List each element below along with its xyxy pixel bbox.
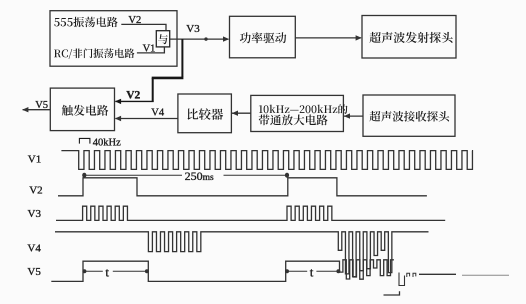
wire V5 output [23, 109, 51, 111]
t1 terminator dot right [145, 269, 149, 273]
waveform V4 received signal with echo burst [55, 232, 429, 279]
svg-text:40kHz: 40kHz [93, 137, 121, 148]
svg-text:V5: V5 [27, 266, 41, 278]
wire bandpass-to-comparator [232, 112, 251, 114]
block U2 power driver box [230, 16, 296, 58]
label power driver [240, 32, 286, 43]
wire V2 555-to-AND [121, 24, 166, 30]
arrowhead into bandpass [344, 113, 350, 118]
echo artifact light line [462, 274, 509, 276]
dimension line 250ms left part [83, 174, 182, 176]
dimension t2 line right [316, 270, 339, 272]
t2 terminator dot right [336, 269, 340, 273]
block ultrasonic receive probe box [363, 95, 455, 136]
junction dot on V3 wire [204, 37, 207, 40]
echo artifact small ticks [407, 273, 416, 277]
svg-text:V1: V1 [28, 154, 41, 166]
arrowhead into power driver [223, 36, 229, 41]
block ultrasonic transmit probe box [362, 16, 456, 59]
svg-text:V4: V4 [151, 107, 165, 118]
svg-text:V4: V4 [27, 242, 41, 254]
wire receive-probe-to-bandpass [344, 115, 363, 117]
feedback wire arrow segment into trigger box [115, 100, 153, 102]
arrowhead V4 into trigger [115, 116, 121, 121]
block trigger circuit box [50, 88, 114, 131]
arrowhead V5 out [22, 107, 28, 112]
dimension terminator dot left [82, 173, 86, 178]
svg-text:V2: V2 [128, 15, 141, 26]
echo artifact dark line [419, 273, 456, 275]
oscillator group box [50, 11, 177, 66]
label RC NOT-gate oscillator circuit [54, 48, 135, 59]
t1 terminator dot left [82, 269, 86, 273]
thick feedback wire V2 vertical from V3 node [181, 39, 183, 77]
t2 terminator dot left [285, 269, 289, 273]
label bandpass line1 10kHz-200kHz [259, 104, 348, 114]
label 555 oscillator circuit [54, 17, 117, 28]
svg-text:V1: V1 [143, 44, 156, 55]
arrowhead feedback into trigger [115, 99, 121, 104]
thick feedback wire horizontal step [152, 77, 184, 80]
arrowhead into transmit probe [356, 35, 362, 40]
dimension t2 line left [286, 270, 307, 272]
label bandpass line2 amplifier circuit [259, 115, 328, 126]
arrowhead into comparator [232, 111, 238, 116]
svg-text:V2: V2 [29, 184, 42, 196]
label trigger circuit [62, 105, 109, 116]
dimension t1 line left [83, 270, 102, 272]
waveform V3 gated 40kHz bursts [56, 206, 445, 220]
label ultrasonic receive probe [370, 111, 450, 122]
dimension t1 line right [113, 270, 148, 272]
waveform V5 trigger output pulses [51, 260, 394, 282]
svg-text:V3: V3 [186, 23, 200, 35]
block bandpass amplifier box [251, 95, 344, 131]
and-gate U1 box [156, 31, 169, 47]
label comparator [188, 108, 224, 120]
block comparator box [178, 94, 232, 133]
svg-text:V3: V3 [28, 208, 42, 220]
waveform V2 gate pulse [58, 178, 427, 196]
label ultrasonic transmit probe [370, 32, 453, 43]
dimension line 250ms right part [224, 174, 288, 176]
wire V4 comparator-to-trigger [115, 118, 177, 120]
thick feedback wire vertical step [152, 78, 154, 102]
wire V1 RC-to-AND [137, 47, 165, 53]
wire V3 AND-to-driver [170, 38, 229, 40]
echo artifact small open box [399, 273, 405, 286]
wire driver-to-transmit-probe [295, 37, 361, 39]
waveform V1 40kHz square wave [61, 151, 472, 170]
dimension terminator dot right [285, 173, 289, 178]
svg-text:t: t [105, 265, 109, 280]
svg-text:V2: V2 [126, 90, 140, 102]
echo artifact bottom line [384, 291, 400, 295]
svg-text:V5: V5 [35, 100, 48, 111]
svg-text:t: t [310, 265, 314, 280]
label AND gate symbol [158, 34, 168, 44]
40kHz period marker bracket [79, 138, 90, 143]
